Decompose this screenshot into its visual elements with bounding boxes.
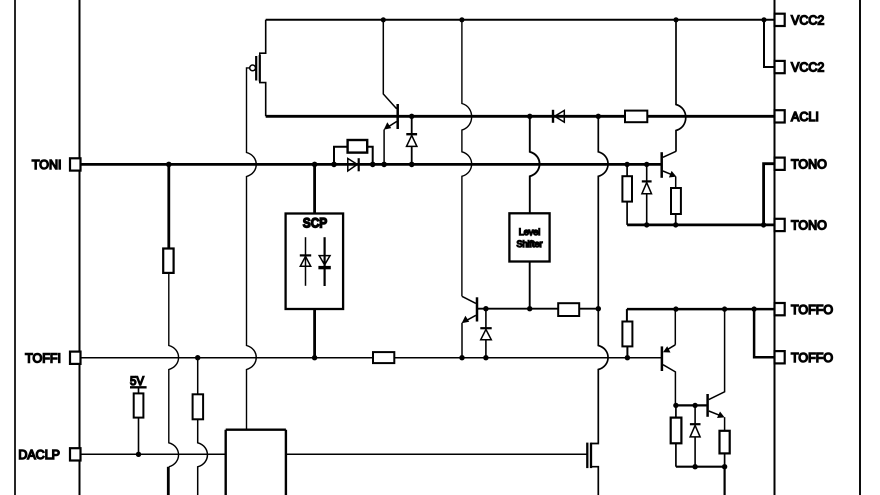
transistor Q1 PNP collector lead [383, 20, 396, 109]
wire: R1 column down with hops over TOFFI and DACLP [169, 273, 179, 467]
node: junction TOFFI / D3 [483, 355, 488, 360]
pin TONO-2 square [775, 219, 785, 231]
resistor R0 (5V pull-up) [134, 387, 144, 454]
node: junction TOFFO bus / TOFFO pin2 branch [751, 306, 756, 311]
node: junction ACLI / mid column [596, 114, 601, 119]
node: junction ground bus / R11 [722, 464, 727, 469]
svg-text:ACLI: ACLI [791, 110, 819, 124]
wire: loop over D1 [334, 147, 348, 165]
driver block box (cut off at bottom) [226, 430, 286, 495]
transistor Q5 emitter with arrow [709, 411, 725, 431]
diode D1 inline on TONI (pointing right) [348, 158, 359, 171]
node: junction net A / mid column [596, 306, 601, 311]
transistor M1 PMOS channel bar [259, 55, 261, 82]
node: junction TONI / diode D2 [409, 162, 415, 168]
wire: ACLI bus [266, 115, 775, 118]
svg-text:DACLP: DACLP [18, 448, 60, 462]
node: junction TONI / R1 column [166, 162, 172, 168]
transistor Q2 base bar [476, 297, 479, 321]
wire: TOFFO bus [627, 308, 775, 311]
level shifter box U1 [509, 213, 549, 261]
IC left boundary [79, 0, 81, 495]
wire: TONI / TONO bus [81, 163, 662, 166]
resistor R1 below TONI [163, 164, 173, 273]
transistor Q2 collector diagonal [462, 296, 476, 303]
resistor R10 [671, 405, 682, 466]
pin DACLP square [70, 448, 81, 460]
resistor R4 (parallel with D1) [348, 140, 368, 153]
transistor Q3 emitter with arrow [663, 171, 677, 188]
wire: Q2 base wire (net A) [477, 308, 598, 310]
svg-text:TOFFI: TOFFI [25, 351, 61, 365]
wire: R8 bottom lead [675, 214, 677, 225]
transistor Q2 emitter with arrow [462, 315, 476, 357]
transistor M1 PMOS source lead [260, 82, 266, 117]
node: junction TOFFO bus / Q4 emitter [673, 306, 678, 311]
node: junction TONI / loop left [331, 162, 337, 168]
wire: DACLP bus right segment to M2 gate [286, 453, 587, 455]
node: junction TONO bus / R7 [624, 162, 629, 167]
wire: ground bus tail to bottom [723, 467, 725, 495]
node: junction lower bus / TONO pin1 branch [761, 222, 766, 227]
node: junction base net / D5 [692, 403, 697, 408]
left figure border [14, 0, 16, 495]
pin TOFFO-2 square [775, 351, 785, 363]
wire: M1 gate line with hops over TONI and TOFFI [247, 68, 257, 429]
wire: branch to TOFFO pin2 [754, 309, 774, 357]
transistor M2 NMOS channel bar [590, 443, 592, 469]
transistor Q3 base bar [660, 152, 663, 178]
pin ACLI square [775, 110, 785, 122]
5V supply bar [130, 386, 147, 388]
node: junction lower bus / R8 [673, 222, 678, 227]
node: junction ACLI / diode D2 [409, 114, 414, 119]
pin TOFFI square [70, 352, 81, 364]
resistor R11 (Q5 emitter) [720, 431, 730, 454]
wire: bottom-right cluster ground bus [676, 466, 725, 468]
node: junction TOFFI / R2 column [195, 355, 200, 360]
node: junction TOFFO bus / Q5 collector [722, 306, 727, 311]
diode D5 [690, 405, 701, 466]
node: junction TOFFI / Q2 emitter [459, 355, 464, 360]
transistor M2 NMOS drain lead [591, 442, 598, 444]
node: junction top rail / VCC2 branch [761, 17, 766, 22]
wire: level shifter bottom lead [529, 262, 531, 309]
node: junction TOFFI / R9 [625, 355, 630, 360]
wire: Q3 column from top rail with hop over ACLI [676, 20, 686, 151]
wire: Q2 column from top rail with hops over ACLI and TONI [462, 20, 472, 297]
transistor Q3 collector diagonal [663, 151, 676, 157]
SCP block box [286, 214, 344, 310]
resistor R7 from TONO bus down [622, 164, 632, 225]
wire: R1 column thick tail to bottom [167, 467, 170, 495]
transistor Q4 PNP base bar (TOFFI ends here) [661, 346, 664, 371]
node: junction top rail / Q1 collector [381, 17, 386, 22]
svg-text:Shifter: Shifter [516, 239, 542, 249]
node: junction TOFFI / SCP lead [312, 355, 317, 360]
diode D3 from net A to TOFFI [480, 309, 491, 358]
wire: TONO lower bus [627, 223, 774, 226]
SCP internal diode right (pointing down, thick bar) [318, 237, 330, 286]
wire: loop right side [367, 147, 373, 165]
transistor M2 NMOS gate bar [586, 443, 588, 469]
transistor Q1 emitter with arrow [384, 122, 397, 165]
transistor M1 PMOS gate bubble [250, 65, 256, 71]
wire: SCP top lead [313, 164, 316, 213]
node: junction DACLP / R0 [136, 452, 141, 457]
pin VCC2-1 square [775, 14, 785, 26]
transistor M1 PMOS drain lead [260, 20, 266, 55]
level shifter top lead with hop over TONO [530, 116, 540, 213]
pin VCC2-2 square [775, 61, 785, 73]
diode D6 inline on ACLI (pointing left) [553, 110, 564, 123]
svg-text:TONI: TONI [32, 158, 62, 172]
wire: SCP bottom lead [313, 309, 316, 358]
wire: R11 bottom lead [724, 453, 726, 466]
pin TOFFO-1 square [775, 303, 785, 315]
IC right boundary [774, 0, 776, 495]
diode D4 from TONO bus down [642, 164, 652, 225]
svg-text:TOFFO: TOFFO [791, 351, 833, 365]
node: junction net A / diode D3 [483, 306, 488, 311]
svg-text:Level: Level [519, 227, 541, 237]
transistor Q4 collector diagonal (down) [663, 365, 675, 406]
resistor R8 (Q3 emitter) [671, 188, 681, 214]
transistor Q4 emitter with arrow (up) [663, 309, 675, 352]
transistor Q5 NPN base bar [706, 394, 709, 417]
svg-text:SCP: SCP [303, 216, 328, 231]
transistor Q5 collector lead up to TOFFO bus [709, 309, 725, 400]
svg-text:TONO: TONO [791, 157, 827, 171]
wire: branch up to TONO pin1 [764, 164, 775, 225]
node: junction TONO bus / D4 [644, 162, 649, 167]
wire: TOFFI bus [81, 357, 662, 359]
wire: DACLP bus left segment [81, 453, 226, 455]
node: junction net A / level shifter bottom [527, 306, 532, 311]
node: junction top rail / Q3 column [673, 17, 678, 22]
resistor R9 from TOFFO bus down to TOFFI [622, 309, 632, 358]
wire: mid column x598 with hops over TONO and TOFFI [598, 116, 608, 443]
node: junction TONI / SCP lead [312, 162, 318, 168]
right figure border [859, 0, 861, 495]
node: junction TONI / loop right [370, 162, 376, 168]
wire: VCC2 pin2 branch [764, 20, 775, 67]
node: junction ACLI / level-shifter lead [527, 114, 532, 119]
node: junction ground bus / D5 [692, 464, 697, 469]
transistor M1 PMOS gate bar [255, 56, 257, 81]
resistor R5 inline on ACLI [625, 111, 647, 123]
pin TONI square [70, 158, 81, 170]
svg-text:VCC2: VCC2 [791, 14, 824, 28]
transistor Q1 base bar [396, 104, 399, 129]
diode D2 from ACLI bus to TONI bus [406, 116, 417, 164]
svg-text:TONO: TONO [791, 219, 827, 233]
resistor R6 inline on net A [558, 303, 579, 316]
node: junction base net / R10 [673, 403, 678, 408]
node: junction TONI / Q1 emitter [381, 162, 387, 168]
node: junction lower bus / D4 [644, 222, 649, 227]
svg-text:VCC2: VCC2 [791, 61, 824, 75]
resistor R3 inline on TOFFI [373, 352, 394, 363]
wire: Q5 base net [675, 404, 707, 406]
wire: top VCC2 rail [266, 19, 774, 21]
pin TONO-1 square [775, 158, 785, 170]
node: junction top rail / Q2 column [459, 17, 464, 22]
transistor M2 NMOS source lead [591, 467, 598, 495]
svg-text:TOFFO: TOFFO [791, 303, 833, 317]
wire: R2 column below TOFFI with hop over DACLP [193, 358, 208, 495]
SCP internal diode left (pointing up) [300, 237, 311, 286]
